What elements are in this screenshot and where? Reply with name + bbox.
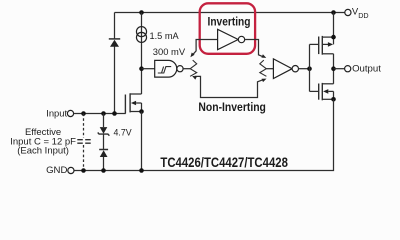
wire inverting path input (from left junction up into red box) [193, 40, 218, 55]
wire to final inverter input [266, 68, 273, 70]
inverter U3 final driver [273, 59, 292, 79]
svg-text:Inverting: Inverting [208, 16, 251, 28]
wire Q3 body to source junction [141, 103, 143, 112]
wire NMOS body to source junction [333, 91, 335, 99]
svg-text:300 mV: 300 mV [153, 46, 186, 57]
wire to Schmitt input [142, 68, 155, 70]
node GND to Q3 source [139, 168, 144, 173]
wire left vertical from rail to diode [114, 13, 116, 39]
svg-text:Output: Output [352, 63, 381, 74]
node junction Schmitt input [139, 66, 144, 71]
terminal VDD [345, 9, 351, 15]
transistor Q2 output NMOS [310, 90, 319, 92]
wire to output terminal [334, 68, 345, 70]
wire diode to GND rail [103, 157, 105, 171]
diode D3 (anode to GND) [99, 149, 108, 151]
wire Schmitt output [183, 68, 190, 70]
wire current-source branch vertical [141, 13, 143, 95]
hysteresis symbol [158, 67, 171, 73]
node input to zener branch [101, 111, 106, 116]
svg-text:Non-Inverting: Non-Inverting [198, 102, 266, 114]
svg-text:VDD: VDD [352, 7, 369, 20]
node output [331, 66, 336, 71]
Schmitt trigger U1 body [155, 60, 177, 77]
wire inverter output to gate bus [299, 68, 310, 70]
diode D1 input clamp to VDD (cathode bar) [109, 38, 120, 40]
svg-text:4.7V: 4.7V [114, 128, 132, 138]
node NMOS source [331, 97, 336, 102]
red highlight box around inverting option [200, 3, 255, 54]
node input to clamp diode [112, 111, 117, 116]
node GND to cap [81, 168, 86, 173]
transistor Q1 output PMOS [310, 43, 319, 45]
Schmitt output bubble [177, 66, 183, 72]
svg-text:1.5 mA: 1.5 mA [150, 31, 180, 41]
capacitor C1 effective input capacitance (dashed) [83, 114, 85, 138]
op-amp style inverter U2 (inverting option) [218, 29, 239, 49]
node junction top rail to current source [139, 10, 144, 15]
wire zener branch upper [103, 114, 105, 128]
transistor Q3 input NMOS [124, 95, 126, 114]
wire input row [74, 113, 126, 115]
wire PMOS drain to output node [333, 54, 335, 84]
zener diode D2 4.7V [100, 127, 108, 134]
node fan-out to selectable paths [190, 60, 197, 76]
node input to effective cap [81, 111, 86, 116]
wire PMOS source/body to rail [333, 13, 335, 45]
wire NMOS source down to GND rail [74, 99, 333, 170]
svg-text:Input: Input [46, 107, 67, 118]
node gate bus junction [307, 66, 312, 71]
wire Q3 source to GND rail [141, 112, 143, 171]
node Q3 source [139, 109, 144, 114]
terminal Output [345, 66, 351, 72]
wire between zener and diode [103, 134, 105, 149]
svg-text:GND: GND [46, 165, 67, 176]
svg-text:TC4426/TC4427/TC4428: TC4426/TC4427/TC4428 [160, 154, 288, 170]
wire non-inverting path (U shaped) [195, 76, 263, 97]
wire inverting path output down to right junction [245, 40, 263, 57]
node junction top rail to PMOS source [331, 10, 336, 15]
node fan-in to final driver [260, 60, 267, 76]
current source I1 1.5 mA (two circles) [136, 27, 146, 37]
wire gate bus vertical [309, 44, 311, 91]
wire top VDD rail [115, 12, 345, 14]
svg-text:(Each Input): (Each Input) [17, 146, 69, 157]
wire diode anode down to input row [114, 47, 116, 114]
node GND to diode branch [101, 168, 106, 173]
